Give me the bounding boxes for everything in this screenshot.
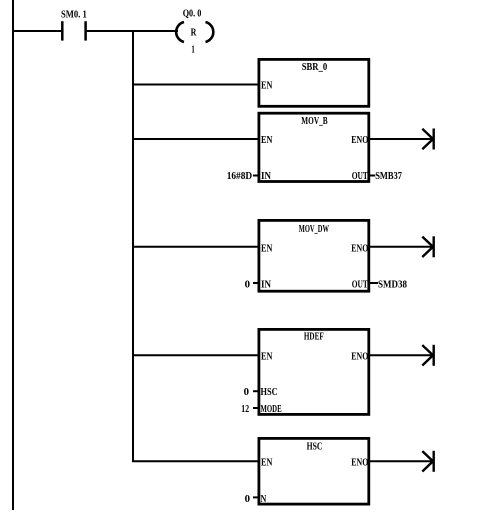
svg-text:EN: EN — [261, 351, 273, 362]
svg-text:1: 1 — [191, 44, 194, 55]
svg-text:0: 0 — [245, 494, 250, 505]
svg-text:0: 0 — [245, 280, 250, 291]
svg-text:SM0. 1: SM0. 1 — [61, 9, 87, 20]
svg-text:16#8D: 16#8D — [227, 171, 253, 182]
svg-text:EN: EN — [261, 243, 273, 254]
svg-text:ENO: ENO — [351, 243, 368, 254]
svg-text:ENO: ENO — [351, 457, 368, 468]
svg-text:SMB37: SMB37 — [375, 171, 402, 182]
svg-text:HSC: HSC — [261, 387, 278, 398]
svg-text:R: R — [191, 27, 197, 38]
svg-text:SMD38: SMD38 — [378, 280, 407, 291]
svg-text:EN: EN — [261, 135, 273, 146]
svg-text:N: N — [261, 494, 267, 505]
svg-text:MOV_B: MOV_B — [301, 116, 328, 127]
svg-text:HSC: HSC — [307, 442, 323, 453]
svg-text:12: 12 — [241, 404, 249, 415]
svg-text:0: 0 — [244, 387, 249, 398]
svg-text:IN: IN — [261, 171, 272, 182]
svg-text:HDEF: HDEF — [304, 332, 324, 343]
svg-text:ENO: ENO — [351, 135, 368, 146]
svg-text:OUT: OUT — [352, 280, 368, 291]
svg-text:EN: EN — [261, 457, 273, 468]
svg-text:SBR_0: SBR_0 — [302, 62, 328, 73]
svg-text:OUT: OUT — [352, 171, 368, 182]
svg-text:MODE: MODE — [261, 404, 282, 415]
svg-text:Q0. 0: Q0. 0 — [183, 8, 202, 19]
svg-text:EN: EN — [261, 80, 273, 91]
svg-text:MOV_DW: MOV_DW — [299, 224, 329, 235]
svg-text:ENO: ENO — [351, 351, 368, 362]
svg-text:IN: IN — [261, 280, 272, 291]
